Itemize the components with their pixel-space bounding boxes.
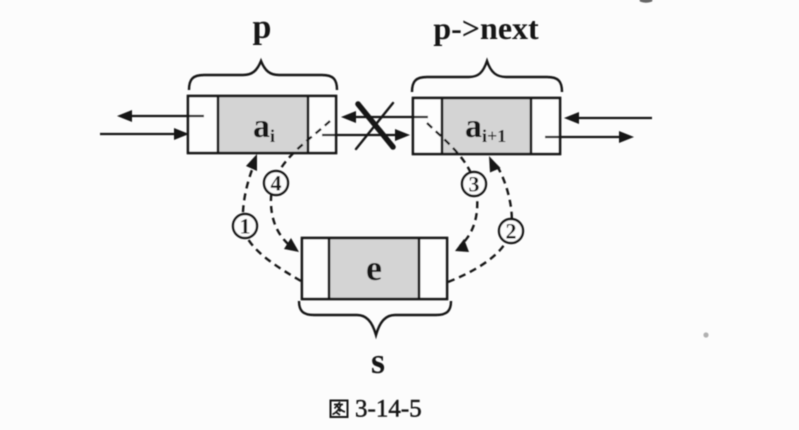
svg-text:3-14-5: 3-14-5 xyxy=(355,396,422,423)
arrowhead curve 2 xyxy=(489,156,501,173)
svg-text:p->next: p->next xyxy=(433,10,539,46)
node s data field fill xyxy=(329,238,419,299)
arrowhead curve 1 xyxy=(246,154,257,171)
wire: incoming prev pointer into p->next from right xyxy=(579,117,652,119)
node p->next data field fill xyxy=(442,98,531,154)
node s box xyxy=(302,238,447,299)
node p->next box xyxy=(413,98,560,154)
scan speck top xyxy=(640,0,653,3)
arrowhead into p->next right side xyxy=(564,112,579,124)
svg-text:4: 4 xyxy=(271,171,282,196)
circled number 2 xyxy=(499,219,523,243)
node p data field fill xyxy=(218,96,308,153)
arrowhead curve 4 xyxy=(284,238,299,252)
circled number 1 xyxy=(233,214,257,238)
arrowhead to p xyxy=(341,111,356,123)
wire: prev pointer of p->next pointing left to p xyxy=(356,116,428,118)
arrowhead left out xyxy=(117,110,132,122)
scan speck right xyxy=(703,332,708,337)
arrowhead to p->next xyxy=(395,129,410,141)
node p->next field dividers xyxy=(442,98,531,154)
brace over node p xyxy=(189,61,337,90)
X cross mark stroke 1 xyxy=(358,104,393,147)
arrowhead out right xyxy=(619,131,634,143)
wire: next pointer of p pointing right xyxy=(322,134,395,136)
svg-text:3: 3 xyxy=(469,172,480,197)
node p field dividers xyxy=(218,96,308,153)
dashed curve 4: p->next = s xyxy=(271,121,330,248)
node p->next outline xyxy=(413,98,560,154)
caption glyph 图 xyxy=(331,401,348,418)
brace over node p->next xyxy=(412,61,562,92)
node p outline xyxy=(188,96,336,153)
arrowhead curve 3 xyxy=(455,239,469,252)
node s field dividers xyxy=(329,238,419,299)
circled number 3 xyxy=(462,172,486,196)
wire: prev pointer of p going left xyxy=(132,115,204,117)
dashed curve 2: s->next = p->next xyxy=(448,163,512,282)
svg-text:2: 2 xyxy=(506,219,517,244)
dashed curve 3: p->next->prior = s xyxy=(427,123,477,246)
node s outline xyxy=(302,238,447,299)
wire: next pointer of p->next going right xyxy=(545,136,619,138)
svg-text:1: 1 xyxy=(240,214,251,239)
svg-text:p: p xyxy=(253,9,272,46)
brace under node s xyxy=(299,301,451,335)
arrowhead into p xyxy=(174,128,189,140)
X cross mark stroke 2 xyxy=(356,103,393,149)
circled number 4 xyxy=(264,171,288,195)
svg-text:e: e xyxy=(366,248,382,288)
node p box xyxy=(188,96,336,153)
svg-text:s: s xyxy=(371,341,385,381)
dashed curve 1: s->prior = p xyxy=(243,160,301,281)
wire: incoming next pointer into p xyxy=(100,133,174,135)
